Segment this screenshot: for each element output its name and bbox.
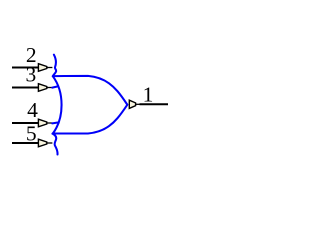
svg-text:3: 3: [26, 62, 37, 86]
wire output 1: [140, 103, 169, 105]
pin 5 arrowhead: [38, 139, 52, 147]
or-gate U1 top edge: [53, 76, 127, 105]
svg-text:5: 5: [26, 121, 37, 145]
svg-text:1: 1: [143, 82, 154, 106]
wire input 3: [12, 87, 38, 89]
wire input 5: [12, 142, 38, 144]
pin 4 arrowhead: [38, 119, 52, 127]
wire blue connector pin 4 to back edge: [52, 121, 58, 124]
wire blue connector pin 3 to back edge: [52, 86, 58, 87]
wire input 4: [12, 122, 38, 124]
or-gate U1 bottom edge: [53, 105, 128, 134]
svg-text:4: 4: [27, 98, 38, 122]
pin 2 arrowhead: [38, 64, 52, 72]
pin 1 output arrowhead: [129, 100, 140, 108]
or-gate U1 back curve (left wavy edge): [53, 55, 62, 155]
wire input 2: [12, 67, 38, 69]
pin 3 arrowhead: [38, 84, 52, 92]
